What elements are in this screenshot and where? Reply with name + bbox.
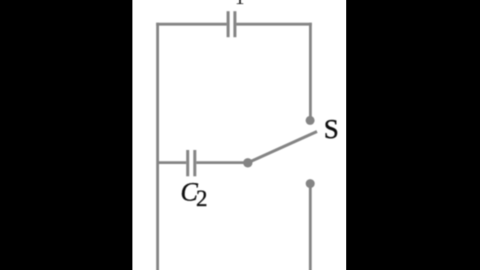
svg-text:S: S (324, 114, 339, 144)
wire top left segment (156, 23, 226, 26)
capacitor C1 (228, 11, 235, 37)
white schematic panel (132, 0, 346, 270)
wire C2 branch right segment (196, 161, 248, 164)
wire left vertical (node A to bottom) (156, 23, 159, 270)
switch S upper contact node (306, 116, 315, 125)
wire C2 branch left segment (158, 161, 187, 164)
wire right vertical lower (below switch) (309, 186, 312, 270)
svg-text:2: 2 (196, 186, 208, 211)
wire right vertical upper (to switch contact) (309, 23, 312, 117)
switch S pivot node (243, 158, 252, 167)
wire top right segment (236, 23, 311, 26)
label C2 (181, 177, 208, 211)
svg-text:1: 1 (235, 0, 245, 9)
capacitor C2 (188, 150, 195, 176)
switch S lever arm (248, 132, 317, 163)
switch S lower contact node (306, 179, 315, 188)
